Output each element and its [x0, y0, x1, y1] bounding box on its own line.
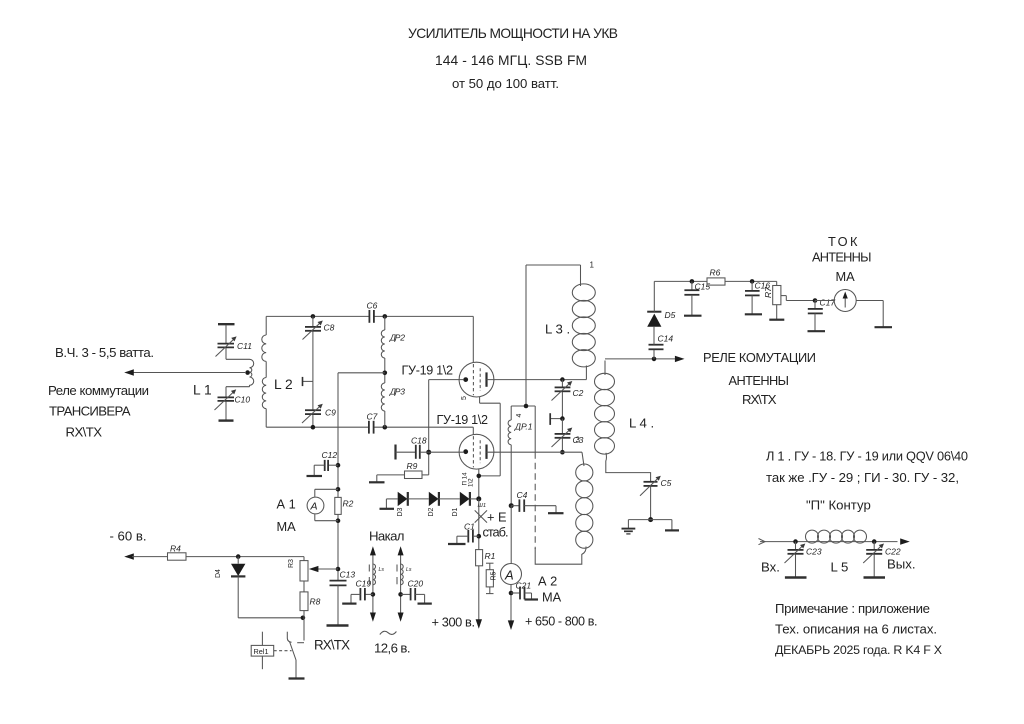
node C9 bottom: [311, 425, 316, 430]
meter TOK ANTENNY: [815, 290, 892, 328]
resistor R7 trimmer: [769, 281, 815, 319]
inductor L2: [262, 316, 266, 427]
wire antenna meter rail: [654, 279, 707, 284]
inductor L3 lower: [535, 452, 593, 564]
svg-text:C6: C6: [367, 301, 378, 311]
resistor R4: [168, 553, 187, 560]
capacitor C9 trimmer: [302, 381, 323, 427]
capacitor C15: [684, 281, 702, 315]
capacitor C14: [649, 327, 664, 359]
svg-text:АНТЕННЫ: АНТЕННЫ: [729, 373, 790, 388]
svg-text:МА: МА: [542, 590, 562, 605]
capacitor C16: [745, 281, 762, 314]
svg-text:+ 300 в.: + 300 в.: [432, 615, 476, 630]
svg-text:Примечание : приложение: Примечание : приложение: [775, 601, 930, 616]
svg-text:L 3 .: L 3 .: [545, 322, 570, 337]
choke DR3: [381, 373, 385, 427]
svg-text:от 50 до 100 ватт.: от 50 до 100 ватт.: [452, 76, 559, 91]
svg-text:1: 1: [590, 261, 595, 270]
svg-text:R4: R4: [170, 544, 181, 554]
diode D3: [386, 492, 428, 506]
svg-text:ДР.1: ДР.1: [514, 422, 533, 432]
wire diode chain ground: [380, 499, 395, 509]
svg-text:+ Е: + Е: [487, 510, 507, 525]
choke DR1 screened: [508, 404, 535, 549]
capacitor C3 trimmer: [552, 419, 573, 455]
svg-text:D3: D3: [397, 507, 404, 516]
capacitor C1: [448, 530, 479, 544]
node C8 top: [311, 314, 316, 319]
svg-text:ГУ-19 1\2: ГУ-19 1\2: [437, 413, 489, 427]
svg-text:+ 650 - 800 в.: + 650 - 800 в.: [525, 615, 598, 629]
svg-text:МА: МА: [836, 269, 856, 284]
capacitor C7: [369, 421, 374, 434]
resistor R6: [707, 278, 725, 285]
svg-text:R5: R5: [491, 571, 498, 580]
capacitor C10: [215, 387, 250, 421]
capacitor C6: [369, 310, 374, 323]
svg-text:C1: C1: [464, 522, 475, 532]
capacitor C23 trimmer: [785, 542, 807, 578]
svg-text:A: A: [504, 568, 514, 583]
svg-text:R3: R3: [288, 559, 295, 568]
svg-text:R6: R6: [710, 268, 721, 278]
capacitor C4: [509, 499, 564, 513]
svg-text:C17: C17: [820, 298, 836, 308]
svg-text:C5: C5: [661, 478, 672, 488]
svg-text:4: 4: [516, 414, 523, 418]
inductor L3 upper: [572, 265, 595, 380]
svg-text:C14: C14: [658, 334, 674, 344]
meter A1: [307, 487, 340, 523]
label pin P14: [462, 472, 475, 487]
capacitor C8 trimmer: [303, 316, 323, 386]
node DR2-DR3 junction: [383, 371, 388, 376]
diode D5: [647, 281, 661, 326]
wire -60V line: [124, 553, 304, 560]
svg-text:C4: C4: [517, 490, 528, 500]
resistor R3 trimmer: [300, 561, 308, 581]
svg-text:C10: C10: [235, 395, 251, 405]
wire bottom rail: [266, 427, 473, 434]
capacitor C20: [401, 588, 432, 604]
resistor R9: [369, 471, 429, 482]
svg-text:А 1: А 1: [277, 497, 296, 512]
resistor R8: [300, 581, 308, 618]
svg-text:Накал: Накал: [369, 529, 405, 544]
svg-text:5: 5: [461, 396, 468, 400]
wire grid2: [429, 451, 464, 453]
wire L3 top feed: [526, 265, 581, 406]
resistor R5 shunt: [486, 563, 494, 593]
svg-text:Ls: Ls: [406, 567, 412, 573]
svg-text:3: 3: [576, 436, 581, 445]
svg-text:так же .ГУ - 29 ; ГИ - 30.: так же .ГУ - 29 ; ГИ - 30. ГУ - 32,: [766, 470, 959, 485]
meter A2: [501, 506, 522, 630]
svg-text:C13: C13: [340, 570, 356, 580]
capacitor C2 trimmer: [550, 380, 572, 425]
inductor L5: [806, 530, 867, 543]
capacitor C22 trimmer: [863, 542, 885, 578]
wire bias feed: [338, 373, 385, 580]
svg-text:D1: D1: [452, 507, 459, 516]
svg-text:Тех. описания на 6 листах.: Тех. описания на 6 листах.: [775, 622, 937, 637]
capacitor C12: [307, 460, 341, 476]
svg-text:C20: C20: [408, 579, 424, 589]
capacitor C5 trimmer: [622, 476, 680, 534]
diode D4: [231, 557, 305, 621]
svg-text:стаб.: стаб.: [483, 525, 509, 540]
svg-text:C18: C18: [411, 436, 427, 446]
node DR3 bottom: [383, 425, 388, 430]
svg-text:Л 1 . ГУ - 18. ГУ - 19 или QQ: Л 1 . ГУ - 18. ГУ - 19 или QQV 06\40: [766, 449, 968, 464]
svg-text:RX\TX: RX\TX: [66, 425, 103, 440]
svg-text:C22: C22: [885, 547, 901, 557]
wire wiper arrow to R3: [309, 566, 341, 572]
relay contact switch: [287, 618, 304, 679]
svg-text:C19: C19: [356, 579, 372, 589]
filament choke 2: [397, 546, 404, 622]
svg-text:D5: D5: [665, 310, 676, 320]
diode D1: [460, 492, 482, 506]
svg-text:ДЕКАБРЬ 2025 года. R K4 F X: ДЕКАБРЬ 2025 года. R K4 F X: [775, 643, 942, 657]
svg-text:1\2: 1\2: [468, 478, 475, 487]
inductor L1: [250, 359, 254, 386]
svg-text:В.Ч. 3 - 5,5 ватта.: В.Ч. 3 - 5,5 ватта.: [55, 345, 154, 360]
wire antenna relay arrow: [605, 356, 685, 362]
wire cathode link: [477, 397, 501, 499]
svg-text:А 2: А 2: [538, 574, 557, 589]
capacitor C21: [509, 587, 538, 600]
svg-text:ТОК: ТОК: [828, 234, 858, 249]
svg-text:R9: R9: [407, 461, 418, 471]
capacitor C13: [327, 581, 349, 626]
svg-text:C23: C23: [806, 547, 822, 557]
svg-text:МА: МА: [277, 519, 297, 534]
wire anode2 line: [487, 451, 583, 453]
AC squiggle: [380, 631, 397, 634]
svg-text:RX\TX: RX\TX: [314, 638, 350, 653]
svg-text:УСИЛИТЕЛЬ МОЩНОСТИ НА УКВ: УСИЛИТЕЛЬ МОЩНОСТИ НА УКВ: [408, 26, 618, 41]
svg-text:R2: R2: [343, 499, 354, 509]
svg-text:12,6 в.: 12,6 в.: [374, 641, 411, 656]
resistor R2: [335, 497, 341, 514]
tube V1 GU-19: [459, 362, 494, 397]
wire grid column: [426, 380, 431, 475]
svg-text:L 2: L 2: [274, 377, 293, 392]
svg-text:D4: D4: [215, 569, 222, 578]
svg-text:ТРАНСИВЕРА: ТРАНСИВЕРА: [49, 404, 131, 419]
capacitor C19: [342, 588, 373, 604]
svg-text:R1: R1: [485, 551, 496, 561]
capacitor C11: [216, 324, 250, 359]
wire top rail: [266, 316, 473, 362]
svg-text:R8: R8: [310, 597, 321, 607]
wire anode1 line: [487, 377, 587, 382]
svg-text:C2: C2: [573, 388, 584, 398]
svg-text:C7: C7: [367, 412, 378, 422]
svg-text:R7: R7: [763, 287, 773, 298]
wire input line with left arrow: [124, 369, 245, 375]
svg-text:L 5: L 5: [831, 560, 849, 575]
svg-text:АНТЕННЫ: АНТЕННЫ: [812, 250, 872, 265]
svg-text:C9: C9: [325, 408, 336, 418]
node L1 tap: [245, 370, 250, 375]
svg-text:Rel1: Rel1: [254, 647, 269, 656]
svg-text:"П" Контур: "П" Контур: [806, 498, 871, 513]
relay Rel1: [251, 632, 291, 670]
capacitor C17: [808, 298, 826, 331]
svg-text:D2: D2: [428, 507, 435, 516]
svg-text:Вх.: Вх.: [761, 560, 780, 575]
svg-text:A: A: [310, 501, 318, 513]
capacitor C18: [396, 445, 429, 460]
node DR2 top: [383, 314, 388, 319]
svg-text:ДР 2: ДР 2: [389, 333, 405, 343]
svg-text:ГУ-19 1\2: ГУ-19 1\2: [402, 364, 454, 378]
X mark Estab: [475, 510, 487, 522]
svg-text:ДР 3: ДР 3: [389, 387, 405, 397]
svg-text:Ls: Ls: [379, 567, 385, 573]
choke DR2: [381, 316, 385, 372]
svg-text:C21: C21: [516, 581, 532, 591]
svg-text:C15: C15: [695, 282, 711, 292]
svg-text:L 4 .: L 4 .: [629, 416, 654, 431]
wire grid1: [429, 379, 464, 381]
tube V2 GU-19: [459, 434, 494, 469]
resistor R1: [476, 550, 483, 566]
svg-text:C11: C11: [237, 341, 252, 351]
svg-text:Реле коммутации: Реле коммутации: [48, 383, 149, 398]
wire R6 to R7: [725, 279, 777, 284]
svg-text:- 60 в.: - 60 в.: [110, 529, 147, 544]
diode D2: [429, 492, 460, 506]
wire P-kontur line: [759, 538, 910, 544]
inductor L4: [595, 361, 651, 482]
svg-text:RX\TX: RX\TX: [742, 392, 777, 407]
filament choke 1: [369, 546, 376, 622]
svg-text:C8: C8: [324, 323, 335, 333]
svg-text:C12: C12: [322, 450, 338, 460]
svg-text:L 1: L 1: [193, 383, 212, 398]
svg-text:РЕЛЕ КОМУТАЦИИ: РЕЛЕ КОМУТАЦИИ: [703, 350, 816, 365]
TITLE-BLOCK: [48, 26, 968, 657]
wire cathode supply column: [476, 499, 482, 629]
svg-text:144 - 146 МГЦ. SSB FM: 144 - 146 МГЦ. SSB FM: [435, 53, 587, 68]
svg-text:Вых.: Вых.: [887, 557, 916, 572]
